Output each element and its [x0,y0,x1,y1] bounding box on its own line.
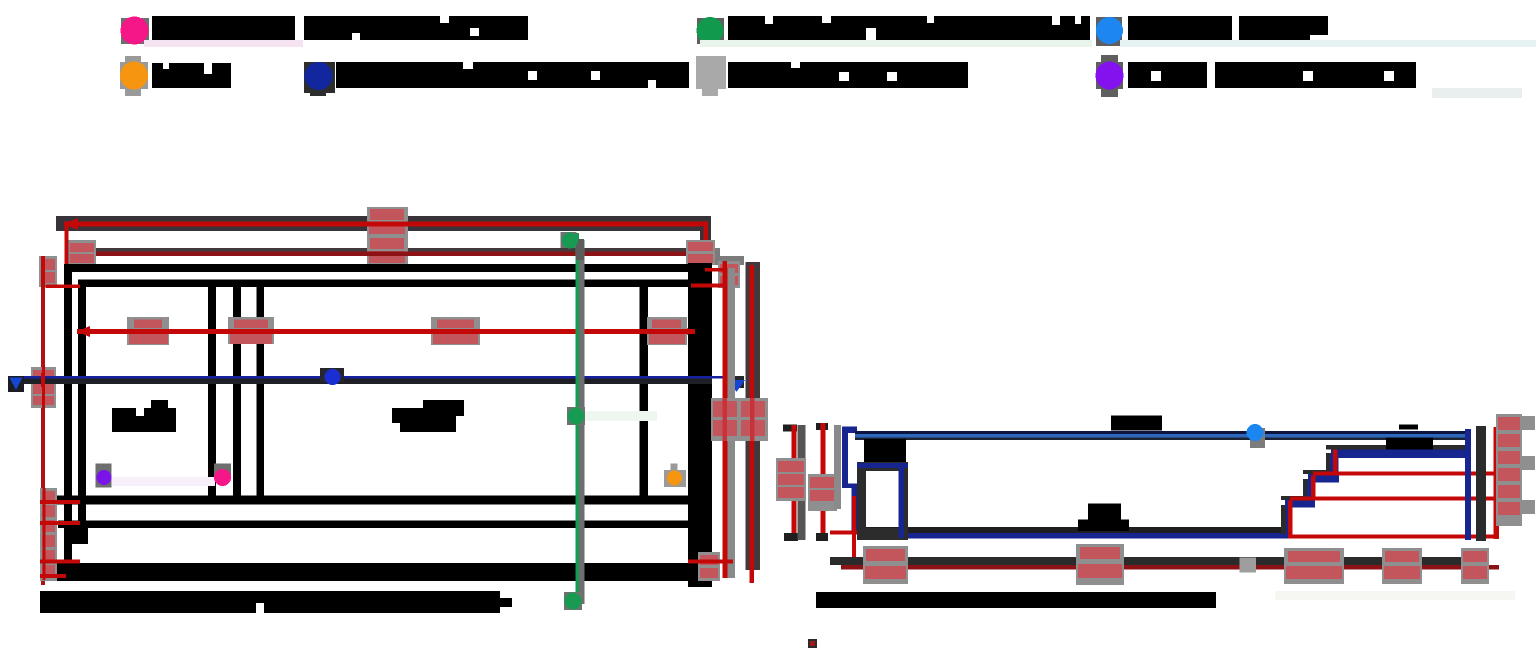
legend item6 text [336,62,689,88]
bottom label C gray bg [1284,548,1344,584]
waterline right label above [1399,425,1418,430]
section dim1 bottom tick [784,533,798,541]
right label stack gray tabs [1522,416,1535,430]
pool left wall navy upper [842,427,848,486]
mid dim label3 red text [437,320,474,329]
green marker top circle [562,233,578,249]
dim top red line [64,222,708,227]
legend dot orange [120,62,148,90]
waterline label mid black blob [1111,416,1162,431]
blue marker left square [8,376,24,392]
red vert through wall [852,496,856,566]
bottom label B red text [1080,547,1120,559]
red tick floor left [830,531,857,535]
right label stack red text [713,401,737,417]
section dim2 bottom tick [816,533,828,541]
blue waterline marker dot [1247,424,1264,441]
interior wall v-trio 1 [208,287,216,496]
red vert overlay left label stacks [43,488,46,580]
right dim vertical 2 shadow [727,268,735,578]
dim left tick red over walls [46,285,81,289]
section dim2 label red text [810,477,835,488]
label left-edge middle red text [33,370,54,381]
step riser3 black [1326,453,1331,475]
label stack top-middle red text rows [370,209,404,220]
section dim1 top tick [783,425,797,432]
caption bar left drawing [40,591,512,613]
label top-left near arrow gray bg [68,240,96,265]
room2 label blob [392,400,464,432]
green marker mid circle [568,408,585,425]
skimmer label black blob [864,439,906,462]
faint ghost text bottom-right [1275,591,1515,600]
step riser2 navy [1307,481,1315,501]
mid dim label3 gray bg [431,317,480,345]
dim second shadow bar [72,248,720,256]
bottom label A gray bg [863,546,908,584]
purple marker square [96,464,112,488]
floor label black blob [1078,504,1129,532]
mid dim label1 red text [134,320,162,329]
section dim2 top tick [816,423,828,430]
interior hline A [57,496,689,505]
blue marker mid circle [325,369,341,385]
green marker bottom square [564,592,582,610]
legend dot purple [1096,62,1124,90]
red line overlays over mid-dim labels [127,329,169,334]
label stack top-middle gray bg [367,207,408,265]
skimmer box black outline [857,462,908,540]
dim second right corner [713,248,720,265]
label top-right corner red text [688,242,713,251]
green mid light band [585,411,657,421]
blue marker left triangle [10,378,23,391]
dim top right tick red over wall [691,284,726,288]
wall top line1 [64,264,712,272]
blue line black underlay [10,378,712,384]
mid dim label2 gray bg [228,317,274,344]
right label stack red text [1498,417,1520,430]
wall left v2 [78,280,86,529]
interior wall v-trio 3 [257,287,265,496]
pool left wall navy corner [842,427,857,433]
dim second dark red line [74,252,716,257]
mid dim label4 gray bg [647,317,687,345]
right dim vertical 2 red [723,268,728,578]
pool left wall navy jog [842,484,857,489]
red corner jog horizontal [705,268,727,272]
step riser1 black [1281,505,1286,534]
right bottom tick red overlay [688,560,733,564]
red vert overlay over right-of-corner label [723,261,728,288]
blue line [16,376,732,379]
pink marker circle [214,469,231,486]
legend dot green [697,17,724,44]
step top tread black [1326,445,1466,450]
blue marker mid square [320,368,344,382]
mid dim left arrow [77,326,90,337]
step riser2 black [1303,479,1308,501]
interior wall right vertical [640,287,649,496]
bottom label E gray bg [1461,548,1489,584]
dim top left arrow [64,218,78,230]
section dim1 label gray bg [776,458,806,501]
label right-of-corner red text [720,264,738,273]
pool left wall navy lower [852,486,858,534]
legend swatch purple background [1096,62,1123,89]
mid dim red line [77,329,695,334]
bottom label C red text [1288,551,1340,562]
right wall black [1476,426,1486,541]
red vertical overlay over blue line crossing [41,373,45,387]
green line [576,233,580,601]
red vert overlay right label stack 1 [723,398,728,441]
blue marker right square [726,376,744,388]
legend item8 text [1128,62,1207,88]
dim top shadow bar [56,216,711,231]
red step line upper [1313,472,1498,476]
green marker top square [561,232,577,248]
legend swatch gray [696,56,726,89]
right dim vertical 3 red line [750,265,755,583]
left red tick 2 [40,521,80,525]
step tread2 black [1303,470,1334,474]
step riser1 navy [1286,505,1292,534]
pink marker square [214,464,231,476]
skimmer navy top [857,463,908,468]
mid dim label2 red text [234,320,268,329]
lavender band [112,477,215,486]
water line blue [855,434,1465,437]
left red tick 4 [40,574,66,578]
mid dim label1 gray bg [127,317,169,345]
green marker mid square [567,407,585,425]
legend swatch green background [697,18,724,44]
step tread2 navy [1308,474,1339,483]
red step riser1 [1288,501,1293,539]
bottom line black [830,557,1487,565]
right wall navy [1465,429,1471,540]
label top-left near arrow red text [70,243,94,252]
bottom label A red text [866,549,905,561]
wall bottom left block [64,528,88,544]
legend swatch 1 background [121,18,149,44]
orange marker tab [671,464,678,471]
right bottom tick red [688,560,733,564]
legend dot navy [305,62,333,90]
left red dim vertical outer [41,256,45,585]
legend dot blue [1096,17,1123,44]
dim top right corner shadow [700,226,711,300]
skimmer navy right [899,463,905,538]
section dim1 shadow vertical [798,425,806,540]
step tread1 black [1281,496,1311,500]
orange marker circle [667,471,682,486]
tiny marker square bottom [808,639,817,648]
red step line bottom [1290,535,1498,539]
green marker top shadow [576,239,584,260]
dim top right corner red vertical [704,226,709,272]
blue+black line overlay over left-edge mid label [28,378,58,384]
bottom label E red text [1463,551,1487,562]
caption bar right drawing [816,592,1216,608]
label right-of-corner gray bg [718,261,740,288]
section dim2 red vertical [821,423,826,540]
waterline right label below [1386,438,1433,450]
right dim vertical 3 shadow bar [746,262,761,570]
bottom line red [841,565,1499,570]
legend item1 underline band [144,40,303,47]
right bottom label red text [700,555,718,565]
right bottom label gray bg [698,552,720,581]
wall top line2 [84,280,689,288]
legend dot pink [121,17,149,45]
red step riser3 [1333,450,1338,476]
section dim1 red vertical [792,425,797,536]
gray shadow L top-right corner [706,248,720,265]
red vert overlay right label stack 2 [750,398,755,441]
gray square marker on bottom [1240,558,1257,573]
legend item2 text [304,16,528,40]
red line overlays over top-middle stack [367,222,408,227]
left bottom label stack red text [42,491,55,502]
blue waterline marker shadow [1250,428,1265,448]
left bottom label stack gray bg [40,488,57,581]
label left-edge top red text [41,259,55,270]
water line navy top [855,431,1465,434]
blue marker right triangle [728,380,745,392]
pool floor navy [857,533,1288,539]
green marker bottom circle [565,593,582,610]
room1 label blob [112,400,176,432]
bottom label B gray bg [1076,544,1124,585]
label left-edge top gray bg [39,256,57,287]
mid dim right arrow [682,326,695,337]
right label stack gray bg [711,398,768,441]
step riser3 navy [1330,455,1339,476]
bottom label D gray bg [1382,548,1422,584]
legend item3 underline band [700,40,1092,47]
purple marker circle [97,470,112,485]
red step line mid [1290,497,1498,501]
wall left v1 [64,264,72,581]
dim top right tick red [691,284,726,288]
legend item5 text MISC [152,63,231,88]
section dim1 label red text [778,461,804,472]
orange marker square [664,470,686,487]
wall bottom thick [56,563,695,581]
legend swatch blue background [1096,17,1122,46]
legend item7 text [728,62,968,88]
legend item4 text [1128,16,1232,40]
wall right thick [688,263,712,587]
faint ghost text top-right [1432,88,1522,98]
legend swatch orange background [120,62,148,89]
mid dim label4 red text [652,320,681,329]
section dim2 label gray bg [808,474,837,511]
right red vertical [1494,427,1500,539]
legend item3 text [728,16,1090,40]
tiny marker red center [810,641,815,646]
interior hline B [58,521,689,529]
pool wall shadow gray [834,425,841,509]
green line shadow [579,240,585,604]
legend item1 text [152,16,295,40]
left red tick 3 [40,560,80,564]
water line dark bottom [855,437,1465,439]
legend swatch navy background [304,62,335,93]
step tread1 navy [1285,500,1315,508]
left red tick 1 [40,500,80,504]
left red dim vertical inner [65,226,69,287]
interior wall v-trio 2 [233,287,241,496]
red step riser2 [1311,476,1316,501]
legend item8 text part2 [1215,62,1416,88]
label top-right corner gray bg [686,240,715,265]
pool floor black [857,527,1283,534]
right label stack gray bg [1496,414,1522,526]
bottom label D red text [1385,551,1419,562]
legend item4 underline band [1120,40,1536,47]
step top tread navy [1331,450,1465,459]
label left-edge middle gray bg [31,367,56,408]
